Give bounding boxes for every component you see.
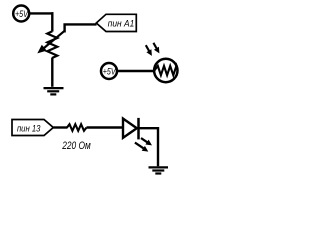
resistor R2 zigzag (horizontal) (67, 124, 87, 131)
svg-text:+5V: +5V (103, 66, 117, 76)
svg-text:+5V: +5V (15, 9, 29, 19)
LED cathode bar (137, 118, 140, 139)
svg-text:220 Ом: 220 Ом (61, 140, 91, 152)
power +5V supply symbol (middle) (101, 63, 117, 79)
LED light emission arrow 2 (135, 143, 148, 152)
wire from wiper up and right to pin A1 tag (63, 24, 96, 32)
wire from potentiometer bottom to ground (51, 58, 53, 87)
svg-text:пин 13: пин 13 (17, 123, 41, 133)
wire from pin 13 tag to resistor (53, 126, 67, 128)
potentiometer R1 body (vertical zigzag) (47, 31, 57, 58)
wire corner down to potentiometer (51, 12, 53, 31)
photoresistor LDR body circle (154, 59, 177, 82)
ground symbol (bottom-right) (149, 167, 169, 173)
LED D1 triangle (123, 119, 137, 138)
wire from resistor to LED anode (87, 126, 123, 128)
svg-text:пин A1: пин A1 (108, 18, 135, 28)
photoresistor internal zigzag (154, 66, 177, 75)
wire from +5V to potentiometer top (29, 12, 53, 14)
pin label tag "пин A1" (96, 14, 136, 31)
LED light emission arrow 1 (141, 138, 152, 145)
potentiometer wiper arrow (37, 31, 64, 54)
power +5V supply symbol (top-left) (13, 6, 29, 22)
wire from LED cathode to ground (139, 127, 160, 166)
ground symbol (below potentiometer) (44, 88, 64, 94)
wire from +5V to photoresistor (117, 70, 155, 72)
pin label tag "пин 13" (12, 120, 53, 136)
light arrow 1 into photoresistor (146, 45, 152, 56)
light arrow 2 into photoresistor (153, 43, 159, 54)
